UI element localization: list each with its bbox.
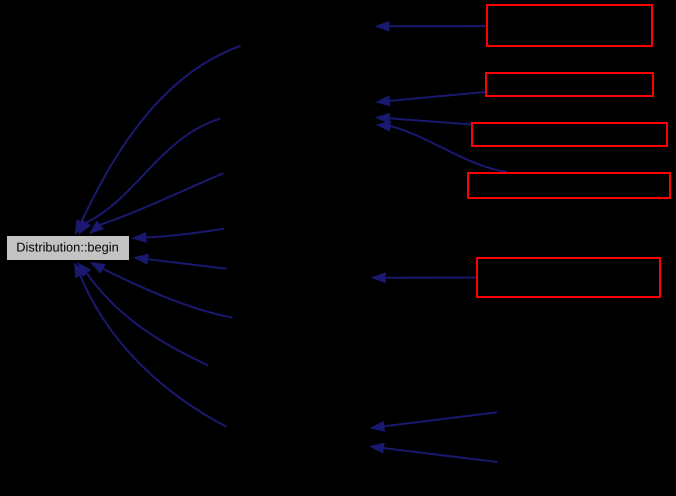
edge C wire — [100, 173, 223, 225]
node caller box R2 — [486, 73, 653, 96]
edge G arrowhead — [74, 262, 85, 278]
edge Ep wire — [148, 259, 226, 269]
edge E wire — [103, 269, 233, 318]
edge e12 arrowhead — [376, 121, 392, 132]
node caller box R5 — [477, 258, 660, 297]
edge C arrowhead — [89, 220, 104, 234]
edge E arrowhead — [90, 262, 106, 274]
edge e13 wire — [386, 277, 477, 279]
edge e12 wire — [390, 126, 507, 172]
edge F arrowhead — [77, 262, 91, 277]
edge e10 wire — [390, 92, 485, 101]
edge e11 wire — [390, 118, 472, 124]
edge e14 wire — [384, 412, 497, 426]
node Distribution::begin box — [7, 236, 129, 260]
edge B arrowhead — [78, 219, 91, 235]
edge G wire — [80, 276, 226, 427]
edge A wire — [82, 46, 241, 222]
node caller box R4 — [468, 173, 670, 198]
svg-text:Distribution::begin: Distribution::begin — [16, 240, 118, 255]
edge e10 arrowhead — [375, 95, 390, 106]
edge e9 wire — [390, 25, 487, 27]
node caller box R3 — [472, 123, 667, 146]
edge A arrowhead — [75, 219, 87, 235]
edge D arrowhead — [132, 232, 147, 243]
edge F wire — [87, 273, 208, 365]
edge e15 wire — [384, 448, 497, 462]
edge e13 arrowhead — [371, 272, 386, 283]
edge D wire — [147, 229, 225, 238]
edge B wire — [87, 119, 221, 223]
edge e11 arrowhead — [375, 113, 390, 124]
edge e14 arrowhead — [370, 421, 386, 432]
edge e15 arrowhead — [369, 443, 385, 454]
edge Ep arrowhead — [133, 254, 149, 265]
node caller box R1 — [487, 5, 652, 46]
edge e9 arrowhead — [375, 21, 390, 32]
